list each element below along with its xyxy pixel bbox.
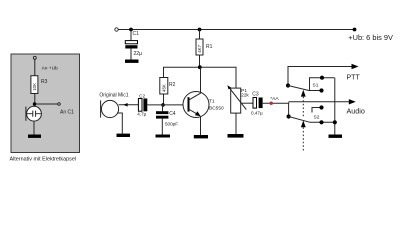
- svg-text:45K: 45K: [161, 84, 166, 92]
- node *AA: [270, 102, 273, 105]
- resistor R3: [31, 76, 38, 94]
- svg-text:C1: C1: [133, 31, 140, 37]
- svg-text:+Ub: 6 bis 9V: +Ub: 6 bis 9V: [348, 33, 393, 42]
- transistor T1: [183, 67, 209, 135]
- capacitor C1: [125, 30, 137, 60]
- svg-text:500pF: 500pF: [165, 122, 178, 127]
- wire wiper to C3: [241, 102, 253, 104]
- actuator linkage dashed: [301, 90, 306, 152]
- svg-text:BC550: BC550: [209, 106, 224, 112]
- svg-text:PTT: PTT: [347, 75, 361, 82]
- svg-text:S2: S2: [314, 115, 320, 121]
- svg-text:R1: R1: [206, 44, 213, 50]
- switch S2: [287, 102, 337, 124]
- terminal An C1: [58, 103, 61, 106]
- ground: [156, 135, 171, 138]
- alternative box: [11, 54, 80, 153]
- arrow PTT: [352, 64, 359, 69]
- capacitor C3: [252, 92, 262, 108]
- svg-text:Original Mic1: Original Mic1: [99, 92, 128, 98]
- ground: [125, 60, 139, 63]
- svg-text:C4: C4: [169, 111, 176, 117]
- electret capsule: [26, 106, 42, 121]
- svg-text:An +Ub: An +Ub: [42, 65, 58, 71]
- svg-text:10K: 10K: [32, 83, 37, 91]
- node base junction: [161, 103, 165, 107]
- wire: [34, 59, 36, 75]
- node junction: [33, 102, 37, 106]
- mic Mic1: [99, 92, 139, 133]
- svg-text:22µ: 22µ: [134, 51, 143, 57]
- svg-text:0,47µ: 0,47µ: [251, 110, 263, 115]
- node R1 top junction: [198, 28, 202, 32]
- wire: [33, 121, 35, 134]
- svg-text:4K7: 4K7: [197, 44, 202, 52]
- wire PTT: [288, 67, 352, 86]
- ground: [194, 135, 208, 138]
- switch S1: [286, 76, 335, 93]
- wire: [34, 94, 36, 107]
- ground: [117, 134, 131, 137]
- arrow audio: [349, 99, 356, 104]
- svg-text:R3: R3: [41, 79, 48, 85]
- wire top rail: [118, 29, 355, 31]
- svg-text:R2: R2: [169, 82, 176, 88]
- terminal +Ub rail: [115, 28, 118, 31]
- svg-text:*AA: *AA: [270, 96, 279, 102]
- wire throw to ground net: [334, 78, 336, 135]
- node rail end: [353, 28, 357, 32]
- node C1 junction: [129, 28, 133, 32]
- ground: [228, 134, 244, 138]
- resistor R1: [196, 30, 203, 68]
- svg-text:22k: 22k: [241, 92, 249, 97]
- terminal An +Ub: [33, 56, 36, 59]
- ground: [329, 135, 343, 138]
- node collector junction: [198, 65, 202, 69]
- svg-text:T1: T1: [209, 99, 215, 105]
- capacitor C4: [156, 105, 168, 135]
- ground: [28, 135, 41, 138]
- svg-text:4,7µ: 4,7µ: [137, 111, 146, 116]
- wire base: [147, 104, 188, 106]
- svg-text:Alternativ mit Elektretkapsel: Alternativ mit Elektretkapsel: [10, 157, 77, 163]
- wire: [35, 103, 58, 105]
- svg-text:C3: C3: [252, 92, 259, 98]
- resistor R2: [160, 78, 168, 106]
- svg-text:S1: S1: [313, 82, 319, 88]
- trimmer P1: [227, 85, 246, 134]
- wire collector net: [164, 67, 237, 88]
- wire audio out: [263, 102, 290, 104]
- capacitor C2: [138, 93, 147, 111]
- svg-text:Audio: Audio: [347, 107, 365, 116]
- svg-text:An C1: An C1: [60, 109, 74, 115]
